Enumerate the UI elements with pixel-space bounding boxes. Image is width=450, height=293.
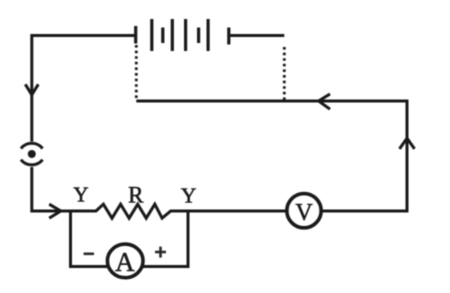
svg-text:Y: Y xyxy=(181,184,197,208)
svg-text:A: A xyxy=(115,247,135,277)
svg-text:V: V xyxy=(295,200,313,226)
svg-text:R: R xyxy=(128,182,144,207)
svg-text:Y: Y xyxy=(73,183,88,207)
